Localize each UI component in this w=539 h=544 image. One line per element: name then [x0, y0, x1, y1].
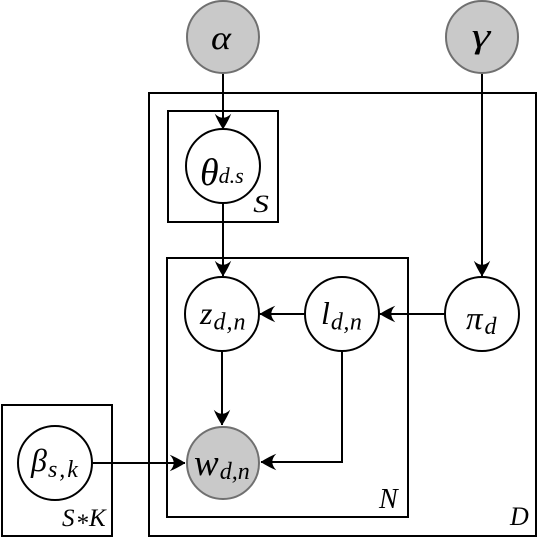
svg-text:γ: γ: [472, 16, 492, 55]
svg-text:S*K: S*K: [62, 505, 107, 537]
svg-text:D: D: [509, 502, 529, 531]
svg-text:N: N: [378, 484, 399, 515]
svg-text:S: S: [253, 191, 269, 218]
svg-text:α: α: [211, 19, 232, 57]
